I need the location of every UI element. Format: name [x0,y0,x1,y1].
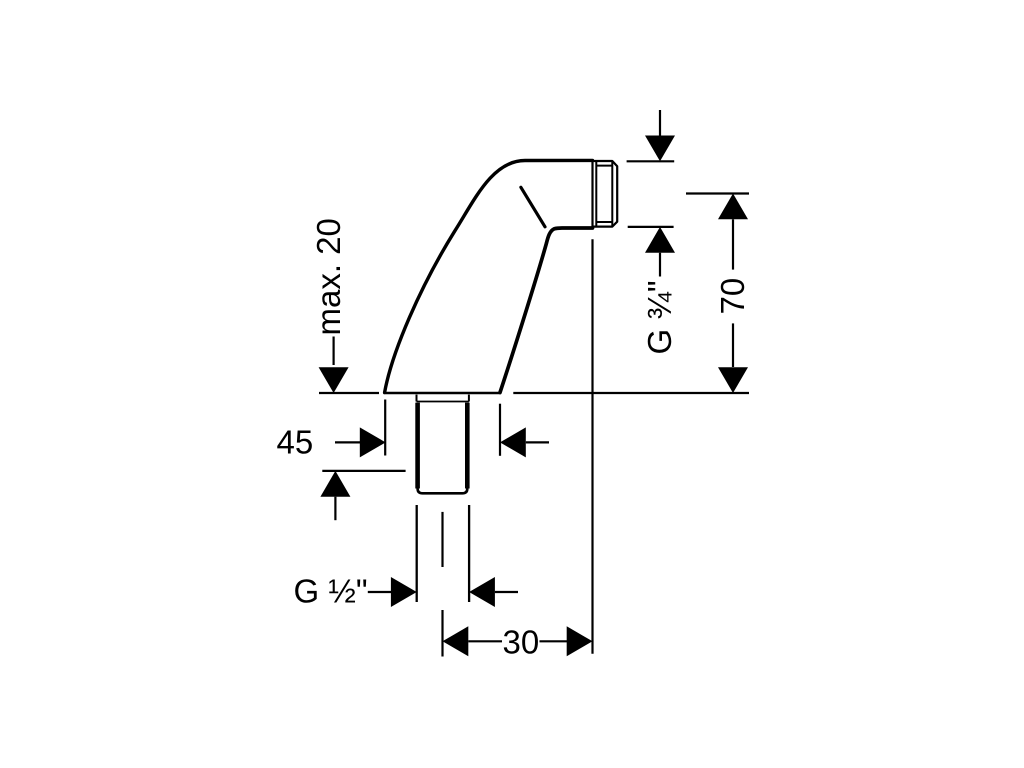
base line [384,392,500,395]
dim right-of-shank: left arrow [500,427,526,457]
shank collar right line [468,395,470,402]
svg-text:G ¾": G ¾" [641,280,678,354]
svg-text:30: 30 [503,623,540,660]
dim 70: lower stem [732,323,734,367]
dim max20 lower: stem [334,497,336,521]
dim 30: right line [540,640,568,642]
dim 45: line [335,441,361,443]
dim max20 lower: tick [322,470,405,472]
spout body right outline with bend into thread base [500,228,593,393]
dim 30: left line [468,640,502,642]
base extension line to the right [513,392,749,394]
spout body left outline and top flat [385,160,593,392]
dim thread-top: stem [659,110,661,136]
dim right-of-shank: line [526,441,549,443]
dim right-of-shank: extension line [499,404,501,456]
shank centerline segment upper [441,512,443,567]
dim 70: upper stem [732,219,734,269]
thread G3/4 outer profile [593,161,618,227]
shank bottom with rounded corners [418,486,468,493]
dim 70: top tick [686,192,749,194]
dim max20: tick at base [319,392,379,394]
shank left extension line [416,505,418,602]
dim 45: right arrow [360,427,386,457]
dim thread-top: down arrow [645,136,675,162]
dim G3/4: tick [628,226,674,228]
dim thread-top: tick [627,160,675,162]
dim max20: stem [333,337,335,366]
bend crease line [521,187,545,227]
thread relief groove line [595,161,597,227]
svg-text:max. 20: max. 20 [310,218,347,335]
dim G1/2: right line [495,591,518,593]
shank right extension line [468,505,470,602]
shank thick right side [465,403,470,489]
svg-text:G ½": G ½" [294,572,368,609]
thread centerline vertical [591,239,593,653]
dim G1/2: left line [368,591,392,593]
thread inner bottom line [596,221,612,223]
dim 30: left arrow [443,626,469,656]
dim 30: right arrow [567,626,593,656]
shank centerline segment lower [441,610,443,657]
dim G3/4: up arrow [645,227,675,253]
shank thick left side [415,403,420,489]
dim G1/2: right arrow at left tick [391,577,417,607]
dim 70: up arrow [718,194,748,220]
dim max20: down arrow [319,367,349,393]
svg-text:70: 70 [714,278,751,315]
thread crest line [611,161,613,227]
thread inner top line [596,165,612,167]
dim max20 lower: up arrow [320,471,350,497]
shank collar left line [416,395,418,402]
dim 70: down arrow [718,367,748,393]
dim G3/4: stem [659,253,661,277]
shank collar horizontal line [417,401,469,403]
dim 45: extension line [384,400,386,456]
dim G1/2: left arrow at right tick [469,577,495,607]
svg-text:45: 45 [277,424,314,461]
